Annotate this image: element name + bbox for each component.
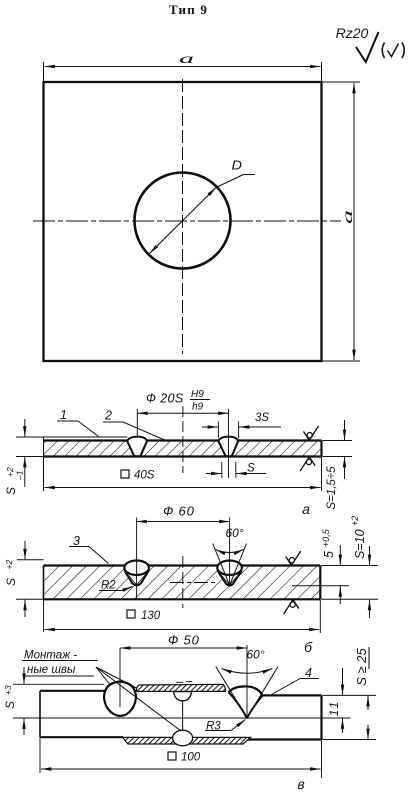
dimension S+2-1 left (section a): [4, 419, 25, 495]
dimension S+3 left (section в): [3, 667, 104, 735]
dimension S=10+2 right (section б): [321, 516, 378, 618]
view label в: [297, 776, 304, 792]
plate body section a: [44, 441, 322, 457]
dimension 11 (section в): [327, 668, 343, 733]
svg-text:5: 5: [322, 551, 336, 558]
dimension square 100: [40, 738, 322, 779]
svg-text:a: a: [179, 52, 194, 67]
svg-text:H9: H9: [191, 389, 204, 400]
plate edges section a: [44, 441, 322, 457]
label 3: [69, 534, 109, 564]
dimension S=1,5..5 right (section a): [323, 420, 353, 510]
dimension S>=25 right (section в): [323, 647, 377, 740]
svg-text:+2: +2: [5, 467, 15, 477]
dimension a top: [44, 52, 322, 82]
top tack weld semicircle: [174, 692, 192, 701]
svg-text:+0,5: +0,5: [321, 528, 331, 547]
svg-text:4: 4: [305, 666, 312, 680]
left plate outline: [40, 691, 123, 737]
view label а: [302, 501, 310, 517]
vertical centerline of plate: [182, 79, 184, 354]
dimension a right: [322, 82, 361, 361]
top overlay strip (hatched): [136, 684, 225, 691]
cup centerline section в: [246, 645, 248, 719]
dimension Ф50: [120, 633, 247, 708]
dimension square 130: [45, 600, 321, 633]
surface symbol above plate right (section б): [286, 551, 301, 565]
svg-text:S ≥ 25: S ≥ 25: [354, 647, 369, 685]
weld cup left R2 (section б): [124, 561, 149, 587]
montage weld blob left: [104, 682, 136, 716]
right plate outline: [248, 695, 322, 739]
label 4: [272, 666, 320, 695]
dimension Ф20S H9/h9: [137, 389, 228, 478]
root level extension line: [13, 717, 351, 719]
svg-text:S: S: [4, 487, 18, 495]
weld cup right (section a): [218, 437, 238, 457]
svg-text:R2: R2: [101, 580, 116, 592]
left edge + extensions section a: [16, 437, 127, 491]
svg-text:Монтаж -: Монтаж -: [24, 650, 77, 662]
svg-text:1: 1: [60, 408, 67, 422]
60deg legs and arc (section в): [216, 648, 278, 719]
svg-text:S: S: [247, 463, 255, 475]
svg-text:a: a: [341, 210, 356, 224]
left edge extension (section б): [43, 599, 45, 632]
svg-text:Ф 50: Ф 50: [168, 633, 200, 648]
angle 60deg (section б): [213, 526, 247, 585]
svg-text:D: D: [232, 159, 243, 173]
svg-text:а: а: [302, 501, 310, 517]
svg-text:+2: +2: [4, 560, 14, 570]
centerline section a: [182, 406, 184, 473]
centerlines section б: [170, 556, 216, 608]
svg-text:S: S: [3, 701, 17, 709]
svg-text:h9: h9: [192, 402, 204, 413]
surface symbol below plate right (section a): [300, 457, 315, 471]
svg-text:11: 11: [327, 700, 341, 716]
dimension 5+0,5 (weld depth, section б): [292, 528, 349, 604]
roughness symbol Rz20: [336, 25, 379, 62]
label 2: [103, 409, 168, 442]
svg-text:100: 100: [181, 752, 201, 764]
svg-text:Rz20: Rz20: [336, 25, 369, 41]
dimension square 40S: [45, 457, 322, 491]
weld cup right 60 (section б): [217, 561, 242, 587]
view label б: [304, 639, 313, 655]
svg-text:S=10: S=10: [353, 529, 367, 559]
svg-text:3S: 3S: [255, 412, 269, 424]
surface symbol above plate right (section a): [304, 426, 319, 440]
label 1: [57, 408, 99, 437]
svg-text:в: в: [297, 776, 304, 792]
svg-text:60°: 60°: [226, 526, 244, 540]
svg-text:130: 130: [141, 610, 161, 622]
weld surface ticks above top strip: [176, 681, 192, 684]
diameter leader D: [150, 159, 256, 254]
dimension S+2 left (section б): [4, 541, 44, 617]
svg-text:40S: 40S: [134, 470, 155, 482]
svg-text:Тип 9: Тип 9: [169, 2, 208, 17]
label R3: [205, 720, 246, 733]
svg-text:+3: +3: [3, 685, 13, 695]
dimension 3S: [202, 412, 281, 438]
svg-text:–1: –1: [15, 470, 25, 481]
hole circle D: [135, 173, 231, 269]
svg-text:Ф 60: Ф 60: [163, 504, 195, 519]
horizontal centerline of plate: [33, 220, 341, 222]
joint gap line: [182, 701, 184, 731]
plate edges section б: [44, 566, 321, 600]
bottom root weld blob: [173, 730, 193, 746]
svg-text:3: 3: [73, 534, 80, 548]
svg-text:Ф 20S: Ф 20S: [146, 392, 184, 406]
svg-text:60°: 60°: [247, 648, 265, 662]
surface symbol below plate right (section б): [284, 600, 299, 614]
square plate outline: [44, 82, 322, 361]
svg-text:+2: +2: [350, 516, 360, 526]
svg-text:S=1,5÷5: S=1,5÷5: [326, 466, 338, 510]
label R2: [99, 580, 133, 592]
plate body section б: [44, 566, 321, 600]
weld cup left (section a): [127, 437, 147, 457]
main weld cup (60deg R3) section в: [229, 686, 263, 718]
svg-text:ные швы: ные швы: [27, 664, 76, 676]
label Монтажные швы: [22, 650, 181, 732]
svg-text:б: б: [304, 639, 313, 655]
dimension S (root width): [206, 462, 266, 478]
svg-text:S: S: [4, 578, 18, 586]
svg-text:2: 2: [104, 409, 112, 423]
bottom overlay strip (hatched): [123, 737, 251, 744]
title Тип 9: [169, 2, 208, 17]
symbol (check) in parentheses: [382, 43, 404, 59]
dimension Ф60: [137, 504, 230, 599]
